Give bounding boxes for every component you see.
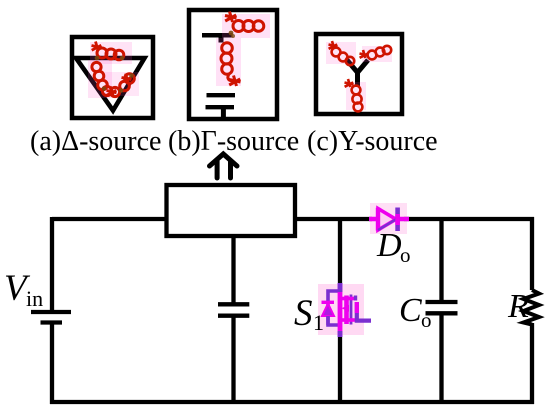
svg-text:o: o [421,308,432,332]
svg-text:D: D [376,227,402,264]
svg-text:(a)Δ-source: (a)Δ-source [30,126,161,157]
svg-text:o: o [400,243,411,267]
svg-text:R: R [507,288,529,325]
svg-text:1: 1 [313,310,324,335]
svg-text:S: S [294,293,313,334]
svg-text:(b)Γ-source: (b)Γ-source [168,126,299,157]
svg-text:in: in [26,286,43,311]
svg-text:C: C [399,292,422,329]
svg-text:(c)Y-source: (c)Y-source [307,126,438,157]
